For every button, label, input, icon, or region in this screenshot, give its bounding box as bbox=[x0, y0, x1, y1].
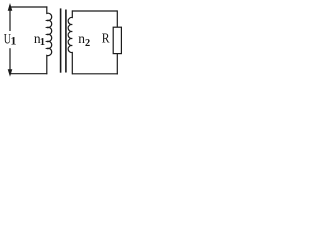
wire (secondary bottom) bbox=[72, 73, 118, 75]
voltage arrow U1 bbox=[8, 3, 13, 77]
secondary winding n2 bbox=[68, 10, 72, 74]
wire (resistor to bottom) bbox=[116, 54, 118, 75]
transformer core (right bar) bbox=[65, 10, 67, 73]
wire (primary bottom) bbox=[9, 73, 47, 75]
primary winding n1 bbox=[47, 6, 52, 74]
wire (secondary top) bbox=[72, 10, 117, 12]
svg-text:1: 1 bbox=[40, 37, 45, 48]
svg-text:2: 2 bbox=[85, 38, 90, 49]
svg-text:R: R bbox=[102, 32, 110, 47]
wire (primary top) bbox=[9, 6, 47, 8]
transformer core (left bar) bbox=[60, 8, 62, 72]
wire (secondary right, to resistor) bbox=[116, 10, 118, 27]
svg-text:1: 1 bbox=[11, 33, 17, 47]
resistor R bbox=[113, 27, 121, 53]
